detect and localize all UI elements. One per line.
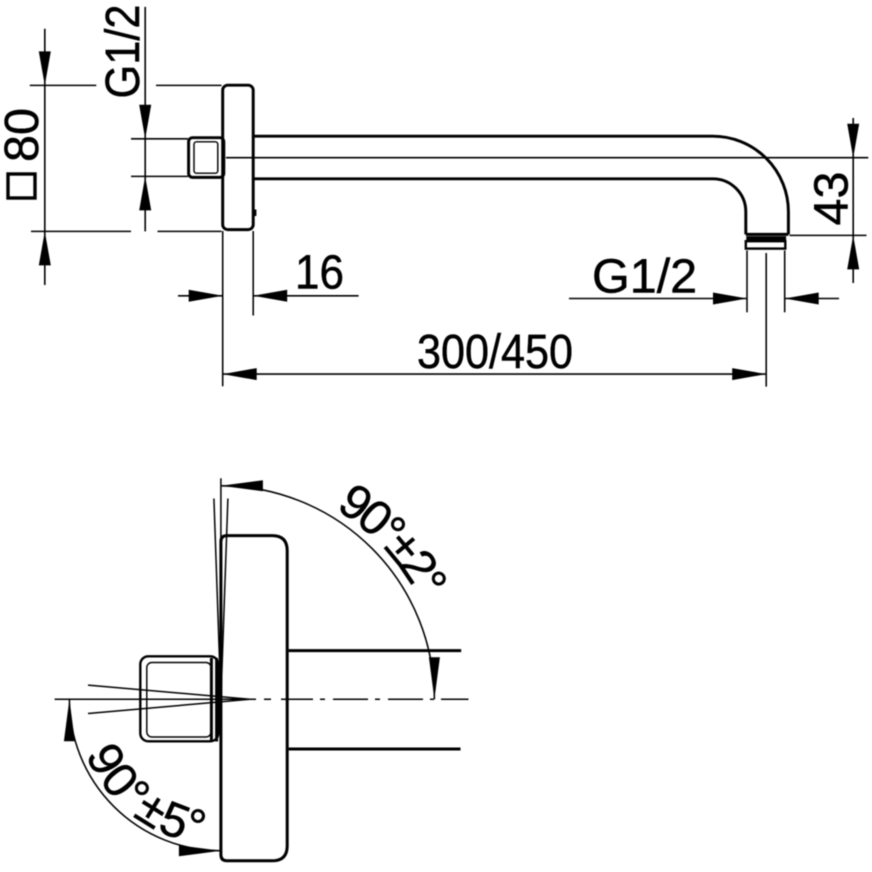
- wall plate (side view): [223, 85, 254, 229]
- axis solid left part: [55, 698, 256, 700]
- plate edge tick: [253, 210, 257, 217]
- dimension G1/2 right: dimension line: [569, 298, 839, 300]
- wall plate (bottom view): [221, 536, 287, 861]
- thread nut (bottom view): [140, 656, 218, 741]
- angle arc 90+-5: [69, 699, 221, 851]
- dimension 80: extension line bottom: [31, 230, 222, 232]
- tolerance fan +2deg: [214, 499, 221, 700]
- dimension G1/2 left: extension lines: [131, 139, 188, 177]
- arc 90+-2 arrow top: [221, 480, 263, 491]
- tolerance fan -2deg: [221, 499, 228, 700]
- svg-text:G1/2: G1/2: [592, 250, 697, 304]
- dimension G1/2 left: arrow top: [139, 105, 151, 139]
- dimension 80: arrow bottom: [39, 231, 51, 265]
- dimension 80: arrow top: [39, 51, 51, 85]
- thread band lines: [210, 658, 213, 742]
- outlet collar band: [746, 236, 786, 240]
- shower arm tube outline: [253, 136, 788, 234]
- dimension 300/450: dimension line: [223, 373, 767, 375]
- dimension 16: dimension line: [178, 295, 359, 297]
- dimension G1/2 left: dimension line: [144, 7, 146, 232]
- dimension 300/450: extension line right (outlet axis): [765, 253, 767, 387]
- dimension G1/2 right: extension lines: [747, 251, 785, 313]
- nut inner face: [147, 663, 211, 738]
- axis dash-dot right part: [264, 698, 469, 700]
- angle arc 90+-2: [221, 486, 435, 700]
- dimension 16: arrows: [189, 290, 223, 302]
- svg-text:43: 43: [805, 172, 859, 226]
- svg-text:16: 16: [295, 246, 344, 300]
- square symbol of dim 80: [8, 174, 35, 198]
- fitting inner face: [194, 142, 218, 173]
- dimension 80: extension line top: [30, 84, 222, 86]
- square thread fitting (side view): [189, 138, 224, 178]
- arm bottom line (bottom view): [289, 748, 461, 751]
- svg-text:80: 80: [0, 108, 49, 162]
- svg-text:300/450: 300/450: [417, 325, 573, 379]
- dimension G1/2 left: arrow bottom: [139, 176, 151, 210]
- arc 90+-2 arrow bottom: [429, 657, 440, 699]
- dimension 43: dimension line: [852, 118, 854, 283]
- arm top line (bottom view): [289, 649, 462, 652]
- dimension 43: extension line (outlet end): [790, 234, 867, 236]
- tolerance fan -5deg: [88, 699, 250, 713]
- outlet collar nut: [746, 241, 786, 248]
- svg-text:G1/2: G1/2: [96, 5, 150, 99]
- arc 90+-5 arrow top: [64, 699, 75, 741]
- dimension 300/450: arrows: [223, 368, 257, 380]
- dimension 80: dimension line: [44, 29, 46, 285]
- vertical extension line above plate: [220, 478, 222, 699]
- dimension 16: extension lines: [223, 231, 254, 386]
- dimension 43: arrow bottom: [847, 235, 859, 269]
- dimension 43: arrow top: [847, 124, 859, 158]
- arc 90+-5 arrow bottom: [179, 845, 221, 856]
- tolerance fan +5deg: [88, 685, 250, 699]
- dimension G1/2 right: arrows: [713, 293, 747, 305]
- arm centre axis line: [226, 157, 868, 159]
